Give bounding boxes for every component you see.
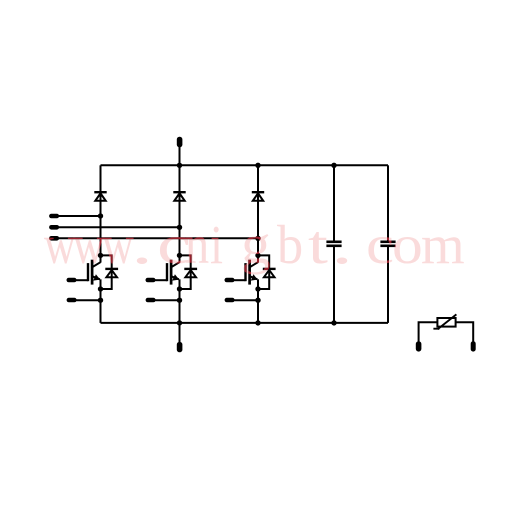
node: capacitor C1 bottom junction bbox=[331, 320, 336, 325]
thermistor terminal T2 bbox=[471, 341, 476, 351]
gate terminal G2 bbox=[146, 278, 168, 283]
node: capacitor C1 top junction bbox=[331, 163, 336, 168]
emitter sense terminal E1 bbox=[67, 298, 101, 303]
IGBT Q1 bbox=[88, 260, 101, 285]
IGBT Q2 bbox=[167, 260, 180, 285]
thermistor terminal T1 bbox=[416, 341, 422, 351]
emitter sense terminal E3 bbox=[225, 298, 258, 303]
node: emitter junction phase 3 bbox=[255, 286, 260, 291]
AC terminal W (phase 3) bbox=[49, 236, 258, 241]
wire: phase 1 vertical (DC+ rail to collector) bbox=[100, 165, 102, 262]
terminal N (DC-) bbox=[177, 323, 183, 352]
wire: emitter vertical phase 2 bbox=[179, 279, 181, 323]
node: phase 2 top rail junction bbox=[177, 163, 182, 168]
wire: DC+ bus (top rail) bbox=[101, 164, 389, 166]
node: phase 3 bottom rail junction bbox=[255, 320, 260, 325]
node: phase 2 bottom rail junction bbox=[177, 320, 182, 325]
node: AC junction phase 3 bbox=[255, 236, 260, 241]
gate terminal G3 bbox=[225, 278, 246, 283]
diode D1 (top, cathode to DC+) bbox=[94, 192, 106, 201]
AC terminal V (phase 2) bbox=[49, 225, 179, 230]
node: emitter sense junction phase 1 bbox=[98, 298, 103, 303]
node: emitter junction phase 2 bbox=[177, 286, 182, 291]
AC terminal U (phase 1) bbox=[49, 214, 100, 219]
capacitor C2 bbox=[380, 165, 395, 323]
freewheel diode D4 (antiparallel) bbox=[105, 269, 118, 277]
node: collector junction phase 1 bbox=[98, 253, 103, 258]
freewheel diode D6 (antiparallel) bbox=[263, 269, 276, 277]
diode D2 (top, cathode to DC+) bbox=[173, 192, 185, 201]
node: AC junction phase 2 bbox=[177, 225, 182, 230]
thermistor RT1 bbox=[419, 314, 474, 342]
IGBT Q3 bbox=[246, 260, 259, 285]
wire: phase 2 vertical (DC+ rail to collector) bbox=[179, 165, 181, 262]
terminal P (DC+) bbox=[177, 137, 183, 166]
diode D3 (top, cathode to DC+) bbox=[252, 192, 264, 201]
node: emitter junction phase 1 bbox=[98, 286, 103, 291]
wire: emitter vertical phase 3 bbox=[257, 279, 259, 323]
node: emitter sense junction phase 2 bbox=[177, 298, 182, 303]
capacitor C1 bbox=[326, 165, 341, 323]
wire: emitter vertical phase 1 bbox=[100, 279, 102, 323]
gate terminal G1 bbox=[67, 278, 89, 283]
wire: freewheel diode branch phase 1 bbox=[101, 255, 112, 289]
wire: freewheel diode branch phase 3 bbox=[258, 255, 269, 289]
wire: DC- bus (bottom rail) bbox=[101, 322, 389, 324]
node: collector junction phase 3 bbox=[255, 253, 260, 258]
wire: phase 3 vertical (DC+ rail to collector) bbox=[257, 165, 259, 262]
freewheel diode D5 (antiparallel) bbox=[184, 269, 197, 277]
node: AC junction phase 1 bbox=[98, 213, 103, 218]
wire: freewheel diode branch phase 2 bbox=[180, 255, 191, 289]
node: collector junction phase 2 bbox=[177, 253, 182, 258]
node: emitter sense junction phase 3 bbox=[255, 298, 260, 303]
emitter sense terminal E2 bbox=[146, 298, 180, 303]
node: phase 3 top rail junction bbox=[255, 163, 260, 168]
